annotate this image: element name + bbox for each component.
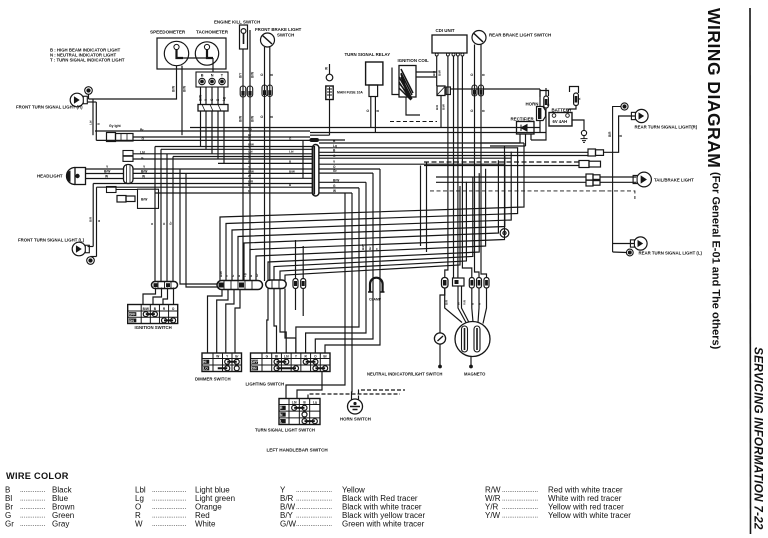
meter connector bar — [198, 105, 228, 112]
svg-text:..............: .............. — [20, 521, 45, 528]
wire battery fuse up — [570, 87, 579, 94]
svg-text:Gr: Gr — [5, 520, 14, 529]
wire lighting feed 2 — [274, 289, 277, 354]
svg-text:LO: LO — [203, 367, 208, 371]
wire fan 2 — [226, 147, 518, 280]
wire lighting stair 1 — [325, 169, 380, 353]
svg-text:HEADLIGHT: HEADLIGHT — [37, 174, 63, 179]
pill m1 — [469, 278, 474, 289]
svg-text:....................: .................... — [296, 521, 332, 528]
wire kill switch b — [249, 30, 251, 281]
svg-text:MAGNETO: MAGNETO — [464, 372, 486, 377]
front turn signal light L bulb — [72, 242, 89, 256]
wire cdi pin2 down — [445, 56, 448, 278]
wire busR 4 — [319, 157, 511, 159]
svg-text:....................: .................... — [296, 487, 332, 494]
wire coil to cdi a — [416, 71, 437, 73]
headlight symbol — [66, 168, 85, 185]
wire battery ground — [572, 120, 584, 130]
svg-text:..............: .............. — [20, 512, 45, 519]
small pill b — [301, 279, 306, 289]
svg-text:Lbl: Lbl — [292, 400, 297, 404]
fuse battery left — [544, 96, 549, 108]
cdi unit box — [432, 35, 467, 53]
wire magneto 3 — [462, 286, 470, 323]
indicator bulb B — [199, 78, 205, 84]
small pill a — [293, 279, 298, 289]
connector headlight lower — [117, 196, 135, 203]
wire coil dash — [390, 121, 437, 123]
wire bus Gy ext — [310, 134, 330, 136]
front turn signal light R bulb — [70, 93, 87, 107]
indicator bulb T — [219, 78, 225, 84]
svg-text:NEUTRAL INDICATOR/LIGHT SWITCH: NEUTRAL INDICATOR/LIGHT SWITCH — [367, 372, 442, 377]
meter housing box — [157, 38, 226, 69]
wire ignition feed 3 — [166, 154, 168, 282]
wire bus B/W hl — [133, 172, 312, 174]
wire coil to cdi b — [416, 76, 437, 78]
wire neutral ground — [439, 344, 441, 365]
wire left feed loz a — [180, 169, 217, 284]
rear brake switch lever — [474, 33, 484, 42]
wire meter pin 1 — [200, 87, 202, 105]
wire horn feed — [451, 88, 541, 90]
svg-text:....................: .................... — [296, 495, 332, 502]
wire cdi pin3 down — [453, 56, 455, 278]
wire ign jog 4 — [173, 288, 175, 305]
svg-text:6V 4AH: 6V 4AH — [553, 119, 568, 124]
svg-text:B/W: B/W — [183, 86, 187, 92]
svg-text:LIGHTING SWITCH: LIGHTING SWITCH — [246, 382, 285, 387]
wire rear turn R b — [604, 116, 635, 152]
wire ign jog 1 — [143, 288, 156, 305]
wire busR 5 — [319, 163, 505, 165]
lighting switch table — [251, 353, 331, 372]
connector C1 — [312, 145, 319, 197]
svg-text:B/W: B/W — [219, 271, 223, 277]
wire bus Lbl — [133, 153, 312, 155]
battery terminal + — [552, 114, 556, 118]
wire rectifier run3 — [531, 108, 546, 140]
wire meter pin 4 — [217, 87, 219, 105]
wire rear turn R — [613, 107, 621, 253]
wire neutral switch — [440, 288, 445, 333]
svg-text:MAIN FUSE 10A: MAIN FUSE 10A — [337, 91, 363, 95]
wire small pill b up — [302, 246, 304, 279]
svg-text:...................: ................... — [152, 495, 187, 502]
svg-text:(For General E-01 and The othe: (For General E-01 and The others) — [710, 172, 722, 350]
wire rectifier pin3 — [530, 134, 532, 140]
junction connector circle inner — [503, 231, 506, 234]
engine kill switch lever — [243, 33, 245, 44]
wire vert 420 — [420, 166, 422, 247]
svg-text:..............: .............. — [20, 504, 45, 511]
svg-text:HORN: HORN — [526, 102, 539, 107]
front brake connector a — [262, 85, 267, 97]
wire headlight bw — [86, 173, 124, 175]
svg-text:....................: .................... — [502, 487, 538, 494]
rear brake connector a — [472, 85, 477, 96]
vertical rule — [749, 8, 752, 534]
svg-text:SPEEDOMETER: SPEEDOMETER — [150, 30, 186, 35]
wire fuse down — [329, 100, 331, 136]
wire fan 10 — [280, 182, 466, 281]
svg-text:B/W: B/W — [251, 72, 255, 78]
svg-text:HORN SWITCH: HORN SWITCH — [340, 417, 371, 422]
svg-text:...................: ................... — [152, 521, 187, 528]
wire rectifier run1 — [480, 142, 520, 144]
connector headlight upper — [107, 133, 134, 142]
front turn R connector — [85, 87, 93, 95]
svg-text:B/W: B/W — [333, 178, 339, 182]
wire lighting feed 4 — [285, 289, 296, 354]
turn signal relay base — [369, 85, 378, 97]
svg-text:B/R: B/R — [435, 104, 439, 110]
wire rear brake a — [475, 45, 480, 278]
svg-text:B/W: B/W — [104, 170, 111, 174]
svg-text:B/W: B/W — [248, 169, 254, 173]
wire desc horn a — [351, 193, 354, 400]
svg-text:B/R: B/R — [445, 299, 449, 305]
condenser box — [453, 278, 465, 286]
wire front turn L h2 — [91, 256, 97, 258]
wire coil bracket — [392, 68, 399, 95]
svg-text:TURN SIGNAL LIGHT SWITCH: TURN SIGNAL LIGHT SWITCH — [255, 428, 315, 433]
wire rectifier pin2 — [525, 134, 527, 146]
engine kill switch body — [240, 25, 248, 49]
svg-text:REAR TURN SIGNAL LIGHT (L): REAR TURN SIGNAL LIGHT (L) — [639, 251, 703, 256]
svg-text:Green with white tracer: Green with white tracer — [342, 520, 425, 529]
svg-text:SERVICING INFORMATION 7-22: SERVICING INFORMATION 7-22 — [752, 347, 766, 530]
wire bus Gy — [95, 130, 310, 132]
svg-text:FRONT TURN SIGNAL LIGHT (L): FRONT TURN SIGNAL LIGHT (L) — [18, 238, 85, 243]
fuse body — [326, 86, 333, 100]
svg-text:REAR TURN SIGNAL LIGHT(R): REAR TURN SIGNAL LIGHT(R) — [635, 125, 698, 130]
wire rear turn L b — [613, 251, 627, 254]
svg-text:B/W: B/W — [361, 244, 365, 250]
horn symbol — [537, 107, 546, 121]
svg-text:IGNITION SWITCH: IGNITION SWITCH — [135, 325, 172, 330]
wire meter drop 2 — [205, 111, 207, 149]
wire top bus a — [190, 127, 540, 129]
svg-text:Y: Y — [375, 248, 379, 250]
junction box left — [138, 189, 159, 208]
cdi connector pair — [437, 86, 450, 96]
wire dimmer feed 2 — [217, 290, 228, 354]
wire ignition feed 2 — [160, 149, 162, 281]
wire fuse hook horn — [540, 91, 549, 98]
svg-text:...................: ................... — [152, 512, 187, 519]
wire ign jog 2 — [153, 288, 162, 305]
wire bus 6 — [97, 186, 313, 188]
connector tail B — [579, 161, 601, 168]
rear turn L connector — [626, 249, 633, 256]
wire rectifier run2 — [490, 145, 526, 147]
wire meter pin 5 — [223, 87, 225, 105]
wire fan 3 — [232, 152, 511, 281]
lozenge connector 1 — [217, 281, 263, 290]
wire speedo-tacho link — [183, 57, 207, 59]
svg-text:White: White — [195, 520, 216, 529]
wire front turn R v1 — [92, 99, 94, 135]
wire fan 8 — [268, 173, 479, 280]
ignition switch table — [128, 305, 178, 324]
front brake light switch — [261, 33, 275, 47]
wire small pill a dn — [295, 289, 297, 311]
svg-text:SWITCH: SWITCH — [277, 33, 294, 38]
pill m3 — [484, 278, 489, 289]
svg-text:Lg: Lg — [333, 144, 337, 148]
wire lighting feed 3 — [280, 289, 286, 354]
engine kill switch contact — [241, 29, 246, 34]
magneto — [455, 322, 490, 357]
svg-text:HI: HI — [203, 360, 206, 364]
svg-text:B/Y: B/Y — [239, 72, 243, 78]
wire fan 1 — [220, 143, 524, 281]
wire ignition feed 4 — [172, 157, 174, 282]
wire top bus b — [310, 132, 546, 134]
wire bus G2 — [133, 158, 312, 160]
svg-text:W: W — [248, 174, 251, 178]
wire fan 11 — [285, 186, 460, 281]
svg-text:B/W: B/W — [143, 307, 149, 311]
svg-text:....................: .................... — [296, 504, 332, 511]
wire bus Br — [133, 136, 310, 138]
wire dimmer feed 1 — [208, 290, 223, 354]
pill m2 — [477, 278, 482, 289]
wire magneto ground — [470, 357, 472, 366]
svg-text:..............: .............. — [20, 487, 45, 494]
wire ts feed 3 — [308, 394, 400, 399]
rear turn signal light L bulb — [630, 237, 647, 250]
svg-text:Gray: Gray — [52, 520, 69, 529]
speedometer bulb — [174, 44, 183, 58]
connector headlight mid — [123, 151, 133, 162]
wire run tail 2 — [319, 155, 588, 157]
wire busR 6 — [319, 168, 380, 170]
wire bus Y hl — [133, 168, 312, 170]
wire magneto 5 — [478, 288, 479, 323]
svg-text:Y/W: Y/W — [485, 511, 501, 520]
wire headlight w — [86, 178, 124, 180]
wire busR 10 — [319, 192, 352, 194]
wire meter drop 1 — [200, 111, 202, 147]
neutral ground dot — [438, 365, 442, 369]
cdi pin 2 — [446, 53, 449, 56]
wire bus 5 — [93, 183, 312, 185]
rectifier diode — [521, 125, 527, 131]
wire speedometer to turn signal R — [89, 66, 177, 99]
svg-text:Y/R: Y/R — [463, 299, 467, 305]
fuse holder cap — [326, 74, 333, 81]
svg-text:B/W: B/W — [172, 86, 176, 92]
horn switch contact — [350, 402, 360, 410]
wire cdi conn down — [440, 96, 442, 128]
wire rear brake b — [481, 45, 487, 278]
wire ignition feed 1 — [154, 147, 156, 282]
svg-text:...................: ................... — [152, 504, 187, 511]
cdi pin 3 — [452, 53, 455, 56]
wire bus 7 — [155, 192, 312, 194]
wire lighting stair 4 — [296, 188, 359, 353]
wire tail b — [600, 181, 636, 183]
wire front brake a — [264, 47, 266, 281]
wire rear turn L — [613, 243, 634, 245]
svg-text:OFF: OFF — [252, 360, 259, 364]
svg-text:W: W — [325, 67, 329, 70]
wire fan 9 — [274, 177, 473, 280]
wire ign jog 3 — [163, 288, 168, 305]
wire left feed loz b — [186, 173, 217, 287]
wire magneto 4 — [472, 288, 473, 322]
wire front turn R v2 — [95, 102, 97, 140]
connector tail C — [586, 174, 600, 186]
svg-text:B/R: B/R — [432, 70, 436, 76]
neutral switch arrow — [438, 336, 444, 341]
wire busR 7 — [319, 172, 373, 174]
svg-text:Bl: Bl — [275, 354, 278, 358]
wire magneto 2 — [458, 286, 466, 323]
svg-text:....................: .................... — [502, 495, 538, 502]
wire desc horn b — [359, 390, 406, 400]
wire ts feed 2 — [297, 372, 322, 399]
svg-text:T : TURN SIGNAL INDICATOR LIG: T : TURN SIGNAL INDICATOR LIGHT — [50, 58, 125, 63]
kill switch connector b — [247, 86, 252, 97]
fuse pill magneto — [442, 278, 449, 289]
rear turn signal light R bulb — [631, 109, 648, 122]
svg-text:FRONT TURN SIGNAL LIGHT (R): FRONT TURN SIGNAL LIGHT (R) — [16, 105, 83, 110]
wire tail dash — [601, 191, 635, 199]
wire front turn R h — [88, 101, 97, 103]
svg-text:W: W — [457, 302, 461, 305]
wire small pill a up — [295, 240, 297, 279]
svg-text:Y: Y — [248, 145, 250, 149]
wire dimmer feed 3 — [226, 290, 234, 354]
svg-text:ON: ON — [252, 367, 258, 371]
svg-text:WIRE COLOR: WIRE COLOR — [6, 471, 69, 481]
svg-text:FRONT BRAKE LIGHT: FRONT BRAKE LIGHT — [255, 27, 302, 32]
wire ts feed 1 — [286, 193, 345, 399]
svg-text:TACHOMETER: TACHOMETER — [196, 30, 229, 35]
wire meter drop 5 — [223, 111, 225, 163]
wire vert 426 — [426, 162, 428, 252]
wire lighting feed 1 — [267, 289, 268, 354]
svg-text:B/W: B/W — [199, 95, 203, 101]
ignition connector bar — [152, 282, 178, 289]
speedometer dial — [164, 41, 188, 65]
svg-text:L: L — [280, 420, 282, 424]
svg-text:Lbl: Lbl — [284, 354, 289, 358]
tachometer dial — [195, 42, 218, 65]
wire bus 2 — [161, 148, 312, 150]
wire cdi pin1 down — [436, 56, 438, 86]
wire cdi pin4 down — [457, 56, 459, 278]
front brake connector b — [267, 85, 272, 97]
wire relay b — [374, 97, 376, 133]
wire magneto 1 — [445, 288, 462, 323]
svg-text:....................: .................... — [502, 512, 538, 519]
svg-text:TURN SIGNAL RELAY: TURN SIGNAL RELAY — [345, 52, 391, 57]
svg-text:ON: ON — [129, 319, 135, 323]
connector C1 black cap — [310, 138, 320, 142]
svg-text:B: B — [201, 74, 204, 78]
wire run tail 7 — [430, 190, 601, 192]
indicator bulb N — [209, 78, 215, 84]
cdi pin 5 — [461, 53, 464, 56]
wire horn up — [539, 89, 541, 107]
wire magneto 6 — [483, 288, 487, 324]
cdi pin 4 — [456, 53, 459, 56]
svg-text:G/W: G/W — [280, 520, 296, 529]
ignition coil winding — [399, 69, 413, 100]
wire bus 1 — [155, 146, 312, 148]
svg-text:TAIL/BRAKE LIGHT: TAIL/BRAKE LIGHT — [654, 178, 694, 183]
wire busR 9 — [319, 187, 359, 189]
wire small pill b dn — [302, 289, 304, 317]
svg-text:Lg: Lg — [222, 97, 226, 101]
headlight connector — [124, 165, 134, 184]
svg-text:....................: .................... — [502, 504, 538, 511]
svg-text:Y: Y — [225, 275, 229, 277]
lozenge connector 2 — [266, 280, 287, 289]
svg-text:W: W — [216, 354, 219, 358]
neutral indicator light switch — [434, 333, 445, 344]
wire cdi pin5 down — [462, 56, 471, 278]
wire dimmer feed 4 — [235, 290, 240, 354]
svg-text:IGNITION COIL: IGNITION COIL — [398, 58, 430, 63]
wire headlight y — [86, 168, 124, 170]
svg-text:Yellow with white tracer: Yellow with white tracer — [548, 511, 631, 520]
wire bus 4 — [218, 162, 312, 164]
wire fuse bat left up — [545, 88, 547, 96]
svg-text:..............: .............. — [20, 495, 45, 502]
wire relay a — [370, 97, 372, 128]
cdi pin 1 — [435, 53, 438, 56]
ground symbol battery — [581, 130, 588, 142]
svg-text:B/W: B/W — [442, 104, 446, 110]
svg-text:B/W: B/W — [251, 116, 255, 122]
wire busR 2 — [319, 147, 518, 149]
front brake switch lever — [262, 35, 272, 44]
wire kill switch down — [242, 49, 244, 281]
wire fan 7 — [256, 169, 486, 281]
wire speedometer drop 2 — [181, 66, 183, 136]
svg-text:Lg: Lg — [243, 273, 247, 277]
wire tacho drop — [212, 58, 214, 72]
wire fuse top — [329, 64, 331, 74]
magneto winding 2 — [474, 326, 480, 352]
wire front turn L v1 — [92, 184, 94, 247]
battery box — [549, 113, 572, 127]
fuse element — [327, 87, 332, 99]
fuse battery right — [574, 93, 579, 106]
svg-text:....................: .................... — [296, 512, 332, 519]
wire corner jog — [302, 140, 304, 178]
horn switch — [348, 399, 363, 414]
dimmer switch table — [202, 353, 242, 372]
svg-text:CDI UNIT: CDI UNIT — [436, 28, 455, 33]
wire fan 6 — [250, 146, 505, 281]
wire busR 1 — [319, 142, 524, 144]
wire front brake b — [269, 47, 271, 281]
svg-text:Y: Y — [248, 165, 250, 169]
svg-text:N: N — [211, 74, 214, 78]
wire lighting stair 2 — [315, 173, 373, 353]
wire busR 8 — [319, 181, 366, 183]
battery terminal - — [566, 114, 570, 118]
svg-text:B/R: B/R — [608, 131, 612, 137]
wire lighting stair 3 — [306, 182, 366, 353]
